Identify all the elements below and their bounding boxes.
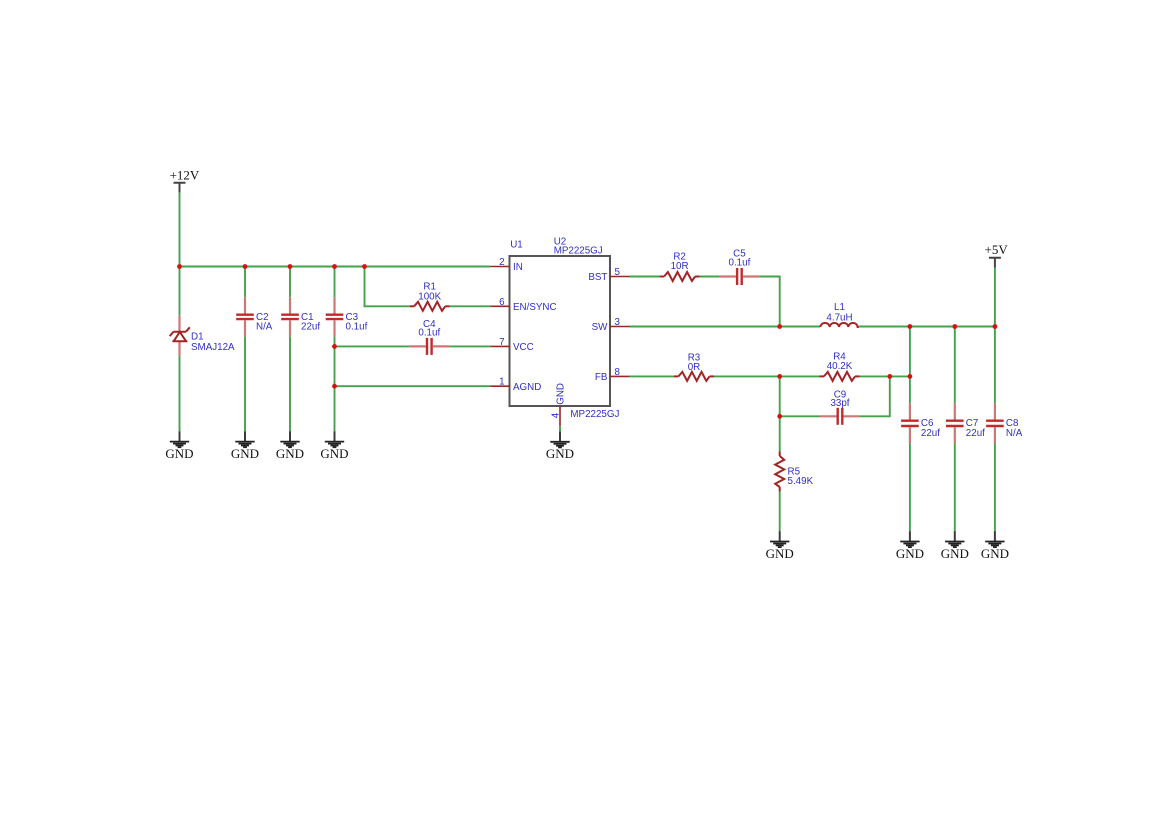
svg-text:SW: SW: [592, 322, 609, 333]
power flag +12V: [170, 168, 200, 193]
svg-text:4: 4: [550, 412, 561, 418]
capacitor C8 N/A: [986, 403, 1023, 443]
svg-text:100K: 100K: [418, 292, 441, 303]
svg-text:AGND: AGND: [513, 382, 541, 393]
svg-text:40.2K: 40.2K: [827, 361, 853, 372]
wire C6 bottom to ground: [909, 444, 911, 532]
wire FB pin to R3: [630, 375, 675, 377]
pin 8 FB: [610, 367, 630, 378]
op-amp U2 MP2225GJ body: [510, 236, 620, 419]
capacitor C1 22uf: [281, 297, 320, 336]
capacitor C2 N/A: [236, 297, 273, 336]
svg-text:5: 5: [615, 267, 621, 278]
wire BST pin to R2: [630, 276, 660, 278]
svg-text:33pf: 33pf: [830, 398, 849, 409]
wire C3 bottom to ground: [334, 337, 336, 432]
ground below C1: [276, 431, 304, 461]
capacitor C6 22uf: [901, 403, 940, 443]
capacitor C4 0.1uf: [409, 319, 449, 355]
svg-text:GND: GND: [276, 446, 304, 461]
svg-text:N/A: N/A: [256, 321, 273, 332]
resistor R2 10R: [660, 252, 700, 281]
svg-text:MP2225GJ: MP2225GJ: [570, 409, 619, 420]
svg-text:GND: GND: [231, 446, 259, 461]
pin 7 VCC: [490, 337, 509, 348]
svg-text:GND: GND: [981, 546, 1009, 561]
junction BST cap on SW line: [777, 324, 782, 329]
wire C4 to pin 7: [449, 345, 490, 347]
svg-text:GND: GND: [546, 446, 574, 461]
junction C9/R5 node: [777, 414, 782, 419]
svg-text:8: 8: [615, 367, 621, 378]
wire R1 to pin 6: [450, 305, 491, 307]
wire C9 left: [780, 415, 820, 417]
wire L1 to +5V output node: [859, 326, 995, 328]
svg-text:GND: GND: [766, 546, 794, 561]
svg-text:GND: GND: [320, 446, 348, 461]
svg-text:GND: GND: [896, 546, 924, 561]
pin 5 BST: [610, 267, 630, 278]
svg-text:1: 1: [499, 377, 504, 388]
ground below C3: [320, 431, 348, 461]
pin 1 AGND: [490, 377, 509, 388]
wire C9 right riser: [860, 376, 890, 416]
wire R3 to FB node: [714, 375, 780, 377]
svg-text:0.1uf: 0.1uf: [418, 327, 440, 338]
inductor L1 4.7uH: [820, 302, 859, 327]
wire C2 bottom to ground: [244, 337, 246, 432]
svg-text:N/A: N/A: [1006, 428, 1023, 439]
wire C2 top: [244, 267, 246, 298]
svg-text:EN/SYNC: EN/SYNC: [513, 302, 557, 313]
junction C2 on bus: [243, 264, 248, 269]
ground below C2: [231, 431, 259, 461]
svg-text:0.1uf: 0.1uf: [729, 257, 751, 268]
svg-text:VCC: VCC: [513, 342, 534, 353]
svg-text:GND: GND: [941, 546, 969, 561]
wire C1 top: [289, 267, 291, 298]
svg-text:22uf: 22uf: [966, 428, 985, 439]
capacitor C9 33pf: [820, 390, 860, 425]
junction C7 on output line: [952, 324, 957, 329]
ground below U2 pin 4: [546, 431, 574, 461]
wire output node down to C7: [954, 327, 956, 404]
junction EN branch on bus: [362, 264, 367, 269]
resistor R1 100K: [410, 282, 450, 311]
diode D1 SMAJ12A: [170, 316, 235, 356]
svg-text:4.7uH: 4.7uH: [826, 312, 852, 323]
capacitor C7 22uf: [946, 403, 985, 443]
svg-text:FB: FB: [595, 372, 608, 383]
wire bus to R1 (EN/SYNC branch): [365, 267, 410, 307]
wire input bus VIN: [180, 266, 491, 268]
wire C1 bottom to ground: [289, 337, 291, 432]
wire SW pin to L1: [630, 326, 821, 328]
resistor R4 40.2K: [820, 351, 860, 381]
wire FB node down to C9/R5 node: [779, 376, 781, 416]
svg-text:0R: 0R: [688, 362, 701, 373]
ground below C7: [941, 531, 969, 561]
junction C3 on bus: [332, 264, 337, 269]
svg-text:2: 2: [499, 257, 504, 268]
wire +5V down to output node: [994, 268, 996, 327]
wire C3 top: [334, 267, 336, 298]
svg-text:IN: IN: [513, 262, 523, 273]
svg-text:D1: D1: [191, 332, 204, 343]
wire output node down to C6: [909, 327, 911, 404]
resistor R5 5.49K: [775, 452, 813, 492]
svg-text:10R: 10R: [671, 261, 689, 272]
wire R5 top: [779, 416, 781, 451]
wire FB node to R4: [780, 375, 820, 377]
wire VCC node to C4: [335, 345, 410, 347]
wire R4 to output column: [860, 375, 910, 377]
junction C8/+5V on output line: [993, 324, 998, 329]
wire C7 bottom to ground: [954, 444, 956, 532]
ground below D1: [165, 431, 193, 461]
svg-text:GND: GND: [556, 383, 567, 405]
svg-text:0.1uf: 0.1uf: [346, 321, 368, 332]
ground below R5: [766, 531, 794, 561]
wire +12V to input bus: [179, 193, 181, 267]
wire R5 bottom to ground: [779, 492, 781, 532]
wire R2 to C5: [700, 276, 720, 278]
svg-text:GND: GND: [165, 446, 193, 461]
svg-text:22uf: 22uf: [921, 428, 940, 439]
capacitor C3 0.1uf: [326, 297, 368, 336]
junction C9 riser on R4 line: [887, 374, 892, 379]
wire C8 bottom to ground: [994, 444, 996, 532]
svg-text:MP2225GJ: MP2225GJ: [554, 246, 603, 257]
wire output node down to C8: [994, 327, 996, 404]
pin 3 SW: [610, 317, 630, 328]
pin 4 GND: [550, 406, 561, 431]
junction C1 on bus: [288, 264, 293, 269]
wire C5 to SW node: [759, 277, 779, 327]
pin 6 EN/SYNC: [490, 297, 509, 308]
junction VCC tap on C3 column: [332, 344, 337, 349]
junction C6 on output line: [908, 324, 913, 329]
svg-text:22uf: 22uf: [301, 321, 320, 332]
svg-text:+5V: +5V: [985, 242, 1009, 257]
junction FB node: [777, 374, 782, 379]
svg-text:6: 6: [499, 297, 505, 308]
svg-text:U1: U1: [510, 240, 523, 251]
svg-text:5.49K: 5.49K: [788, 476, 814, 487]
wire D1 bottom to ground: [179, 356, 181, 431]
svg-text:SMAJ12A: SMAJ12A: [191, 342, 235, 353]
ground below C6: [896, 531, 924, 561]
power flag +5V: [985, 242, 1009, 268]
svg-text:3: 3: [615, 317, 621, 328]
junction R4 at output column: [908, 374, 913, 379]
junction AGND tap on C3 column: [332, 384, 337, 389]
svg-text:+12V: +12V: [170, 168, 200, 183]
wire D1 top: [179, 267, 181, 316]
svg-text:7: 7: [499, 337, 504, 348]
resistor R3 0R: [674, 353, 714, 381]
capacitor C5 0.1uf: [719, 248, 759, 285]
svg-text:BST: BST: [588, 272, 607, 283]
wire AGND node to pin 1: [335, 385, 491, 387]
ground below C8: [981, 531, 1009, 561]
junction +12V/D1 on bus: [177, 264, 182, 269]
pin 2 IN: [490, 257, 509, 268]
